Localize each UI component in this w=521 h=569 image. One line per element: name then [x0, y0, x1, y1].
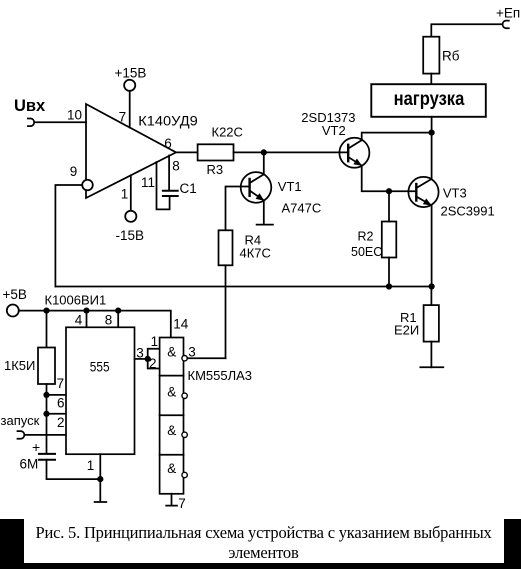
node pin 7 junction — [43, 392, 49, 398]
svg-text:4: 4 — [75, 313, 83, 328]
resistor Rб — [423, 37, 439, 74]
node rail pin4 junction — [83, 308, 89, 314]
wire NAND inputs bracket — [148, 349, 160, 369]
gate1 output inversion circle — [182, 356, 187, 361]
svg-text:50ЕС: 50ЕС — [351, 245, 382, 259]
svg-text:КМ555ЛА3: КМ555ЛА3 — [188, 368, 253, 383]
wire VT2 collector — [362, 133, 432, 141]
wire pin 6 timer — [47, 413, 67, 415]
svg-text:Е2И: Е2И — [394, 323, 419, 338]
svg-text:запуск: запуск — [1, 413, 40, 428]
NAND IC КМ555ЛА3 body — [160, 338, 184, 494]
svg-text:R2: R2 — [358, 230, 374, 244]
svg-text:6: 6 — [57, 396, 65, 411]
pin 9 inversion circle — [82, 180, 93, 191]
wire gate1 output to R4 line — [187, 357, 225, 359]
node VT2 collector junction — [429, 130, 435, 136]
transistor VT2 — [339, 138, 369, 168]
caption scan bar bottom — [0, 563, 521, 569]
node pin 6 junction — [43, 411, 49, 417]
terminal +5В circle — [7, 305, 19, 317]
wire load to VT3 collector — [431, 117, 433, 179]
wire VT1 emitter to ground — [263, 200, 265, 223]
wire rail pin6 to cap — [46, 414, 48, 453]
svg-text:Uвх: Uвх — [14, 97, 46, 115]
wire +5В rail — [19, 311, 171, 338]
gate3 output inversion circle — [182, 432, 187, 437]
connector +Еп terminal — [503, 21, 509, 29]
wire VT3 emitter down — [431, 205, 433, 286]
svg-text:1К5И: 1К5И — [4, 358, 35, 373]
load box нагрузка — [371, 84, 486, 117]
node pin 1 cap junction — [97, 476, 103, 482]
wire Rб to load — [430, 74, 432, 85]
svg-text:VT1: VT1 — [278, 179, 302, 194]
node R2 feedback junction — [386, 283, 392, 289]
gate2 output inversion circle — [182, 393, 187, 398]
wire pin 4 — [86, 311, 88, 328]
wire pin 1 supply — [130, 175, 132, 210]
power terminal +15В circle — [124, 80, 135, 91]
svg-text:1: 1 — [87, 458, 95, 473]
node pin 3 junction — [145, 356, 151, 362]
svg-text:8: 8 — [172, 158, 180, 173]
wire pin 9 feedback left segment — [55, 185, 82, 287]
svg-text:2: 2 — [57, 415, 65, 430]
svg-text:+15В: +15В — [115, 66, 147, 81]
wire pin 7 timer — [47, 394, 67, 396]
svg-text:&: & — [167, 345, 176, 360]
connector запуск terminal — [18, 431, 25, 439]
svg-text:К22С: К22С — [212, 125, 243, 140]
wire pin 3 timer output — [135, 358, 148, 360]
wire VT1 collector — [263, 152, 265, 174]
ground timer pin 1 — [95, 501, 107, 503]
wire pin 8 — [168, 156, 170, 191]
wire pin 1 timer — [99, 454, 101, 501]
svg-text:2SC3991: 2SC3991 — [441, 204, 495, 219]
caption scan bar right — [504, 519, 521, 569]
node R3 output junction — [261, 149, 267, 155]
wire cap bottom to pin1 node — [47, 460, 101, 479]
svg-text:1: 1 — [121, 186, 129, 201]
transistor VT1 — [241, 172, 272, 203]
wire VT2 emitter — [362, 166, 417, 192]
capacitor C1 — [163, 191, 178, 196]
wire R4 to NAND output — [225, 265, 227, 358]
svg-text:С1: С1 — [180, 181, 197, 196]
caption text — [13, 523, 514, 563]
svg-text:10: 10 — [67, 108, 82, 123]
node VT2 emitter junction — [386, 188, 392, 194]
node R1 top junction — [429, 283, 435, 289]
svg-text:11: 11 — [141, 175, 155, 190]
connector Uвх terminal — [28, 119, 34, 127]
svg-text:R3: R3 — [207, 162, 224, 177]
wire pin 2 запуск — [25, 434, 66, 436]
wire pin 11 — [157, 162, 170, 209]
svg-text:VT2: VT2 — [322, 123, 346, 138]
wire R1 bottom lead — [430, 342, 432, 368]
wire VT1 base — [226, 187, 250, 231]
ground R1 — [420, 366, 443, 368]
svg-text:9: 9 — [70, 164, 78, 179]
resistor R2 — [382, 222, 397, 258]
power terminal -15В circle — [125, 211, 136, 222]
svg-text:14: 14 — [173, 317, 189, 332]
wire +Еп to Rб — [431, 24, 502, 36]
svg-text:нагрузка: нагрузка — [394, 88, 465, 110]
wire input pin 10 — [35, 121, 86, 123]
wire pin 8 timer — [117, 311, 119, 328]
timer IC 555 — [66, 327, 135, 454]
svg-text:6: 6 — [164, 136, 172, 151]
svg-text:&: & — [167, 461, 176, 476]
svg-text:1: 1 — [151, 334, 159, 349]
svg-text:6М: 6М — [20, 457, 39, 472]
svg-text:3: 3 — [136, 345, 144, 360]
node rail pin8 junction — [115, 308, 121, 314]
svg-text:-15В: -15В — [116, 228, 145, 243]
op-amp U1 К140УД9 — [86, 104, 176, 198]
svg-text:&: & — [167, 385, 176, 400]
resistor 1К5И — [38, 348, 55, 385]
svg-text:+5В: +5В — [3, 287, 27, 302]
wire pin 7 supply — [129, 91, 131, 128]
wire R2 bottom — [388, 258, 390, 287]
svg-text:7: 7 — [178, 496, 186, 511]
wire 1К5И bottom lead — [46, 384, 48, 395]
svg-text:555: 555 — [90, 359, 110, 375]
resistor R1 — [424, 305, 439, 342]
wire 1К5И top lead — [46, 311, 48, 348]
svg-text:7: 7 — [119, 109, 127, 124]
svg-text:К140УД9: К140УД9 — [138, 114, 198, 129]
svg-text:А747С: А747С — [282, 201, 322, 216]
wire feedback bottom rail — [55, 286, 431, 288]
wire R3 to VT2 base — [234, 151, 349, 153]
resistor R4 — [219, 230, 233, 265]
svg-text:8: 8 — [105, 313, 113, 328]
svg-text:+Еп: +Еп — [496, 6, 520, 21]
capacitor 6М — [39, 454, 55, 460]
ground VT1 emitter — [257, 224, 273, 226]
svg-text:+: + — [32, 439, 40, 455]
ground NAND pin 7 — [166, 494, 177, 506]
svg-text:Rб: Rб — [442, 49, 460, 64]
svg-text:4К7С: 4К7С — [240, 246, 271, 261]
caption scan bar left — [0, 519, 24, 569]
svg-text:&: & — [167, 423, 176, 438]
wire output pin 6 — [176, 151, 198, 153]
svg-text:2: 2 — [149, 356, 157, 371]
transistor VT3 — [408, 177, 438, 207]
svg-text:К1006ВИ1: К1006ВИ1 — [45, 293, 107, 308]
node rail 1К5И junction — [43, 308, 49, 314]
svg-text:VT3: VT3 — [443, 185, 467, 200]
svg-text:7: 7 — [57, 376, 65, 391]
wire R1 top lead — [430, 287, 432, 306]
gate4 output inversion circle — [182, 472, 187, 477]
wire rail pin7 to pin6 — [46, 395, 48, 414]
resistor R3 — [198, 144, 234, 160]
wire R2 top — [388, 191, 390, 221]
